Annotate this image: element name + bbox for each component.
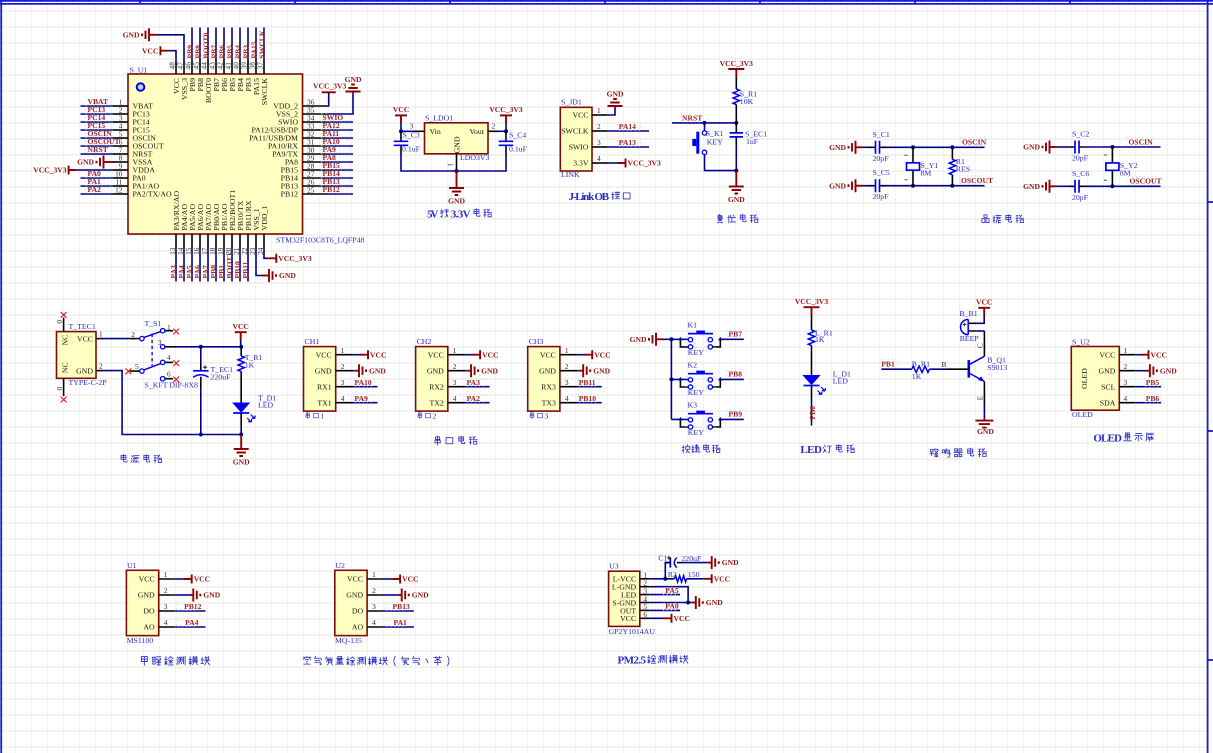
svg-text:C: C xyxy=(976,343,985,348)
svg-text:STM32F103C8T6_LQFP48: STM32F103C8T6_LQFP48 xyxy=(276,236,364,245)
wire U2 pin2 to ground xyxy=(384,594,398,596)
mcu pin 32 PA11/USB/DM xyxy=(303,137,328,139)
svg-text:6: 6 xyxy=(167,369,171,378)
svg-text:GND: GND xyxy=(481,366,498,375)
wire net PA7 from mcu pin 17 xyxy=(207,249,209,282)
net label OSCOUT xyxy=(86,137,112,145)
mcu pin 26 PB13 xyxy=(303,185,328,187)
ground at mcu pin 35 xyxy=(346,85,361,92)
mcu pin 38 PA15 xyxy=(255,60,257,74)
capacitor S_C2 20pF xyxy=(1069,146,1086,148)
wire net PB7 from mcu pin 43 xyxy=(215,28,217,61)
label serial port 2 xyxy=(418,412,422,419)
svg-text:1: 1 xyxy=(565,346,569,355)
mcu pin 21 PB10/TX xyxy=(239,234,241,249)
svg-text:2: 2 xyxy=(131,330,135,339)
net label PB11 xyxy=(578,379,599,386)
connector S_U2 OLED body xyxy=(1071,347,1119,411)
svg-text:PM2.5: PM2.5 xyxy=(618,654,647,666)
wire U3 pin2 L-GND xyxy=(650,587,688,603)
mcu pin 18 PB0/AO xyxy=(215,234,217,249)
svg-text:VCC_3V3: VCC_3V3 xyxy=(313,82,347,91)
title crystal circuit xyxy=(982,215,989,223)
power port VCC U2 xyxy=(392,575,400,584)
svg-text:VCC_3V3: VCC_3V3 xyxy=(795,297,829,306)
svg-text:VCC: VCC xyxy=(142,46,158,55)
title serial circuit xyxy=(435,436,440,445)
svg-text:SDA: SDA xyxy=(1100,398,1116,407)
mcu pin 5 OSCIN xyxy=(113,137,128,139)
svg-text:K2: K2 xyxy=(688,361,698,370)
svg-text:OSCOUT: OSCOUT xyxy=(1130,177,1162,186)
svg-text:PB12: PB12 xyxy=(281,190,298,199)
mcu pin 12 PA2/TX/AO xyxy=(113,193,128,195)
svg-text:2: 2 xyxy=(492,121,496,130)
svg-text:OLED: OLED xyxy=(1080,368,1089,389)
CH1 pin 4 TX1 xyxy=(336,402,353,404)
typec pin 1 VCC xyxy=(96,338,103,340)
wire oled pin1 to VCC xyxy=(1135,354,1140,356)
net label PB15 xyxy=(322,161,350,169)
svg-text:NC: NC xyxy=(61,362,70,373)
svg-text:S_C3: S_C3 xyxy=(403,131,420,140)
connector CH2 body xyxy=(416,347,448,412)
wire net PB13 U2 pin3 xyxy=(384,610,414,612)
net label PB10 xyxy=(578,395,599,402)
U3 pin 5 OUT xyxy=(640,609,650,611)
wire net PB6 oled pin4 xyxy=(1135,402,1161,404)
svg-text:S_C5: S_C5 xyxy=(873,168,890,177)
svg-text:3: 3 xyxy=(565,378,569,387)
wire K2 to net PB8 xyxy=(720,378,744,380)
push button K3 KEY xyxy=(680,419,688,427)
svg-text:VCC: VCC xyxy=(594,350,610,359)
wire mcu pin9 VDDA to VCC_3V3 xyxy=(77,169,113,171)
wire CH3 pin2 to ground xyxy=(577,370,579,372)
U2 pin 3 DO xyxy=(367,610,384,612)
svg-text:PB1: PB1 xyxy=(881,360,895,369)
wire U3 pin1 to node xyxy=(650,578,666,580)
svg-text:2: 2 xyxy=(372,586,376,595)
wire R2 to VCC xyxy=(687,578,704,580)
CH3 pin 4 TX3 xyxy=(560,402,577,404)
node junction bus K2 xyxy=(669,377,673,381)
wire ground to S_C2 xyxy=(1050,146,1057,148)
title power circuit xyxy=(121,454,127,462)
svg-text:LED: LED xyxy=(800,444,822,456)
svg-text:GP2Y1014AU: GP2Y1014AU xyxy=(609,627,656,636)
net label PA12 xyxy=(322,121,350,129)
mcu pin 47 VSS_3 xyxy=(183,60,185,74)
ground at mcu pin 47 xyxy=(142,28,149,41)
svg-text:PA13: PA13 xyxy=(619,138,636,147)
svg-text:VCC_3V3: VCC_3V3 xyxy=(33,166,67,175)
svg-text:DO: DO xyxy=(143,607,155,616)
svg-text:SCL: SCL xyxy=(1101,382,1116,391)
net label PA1 xyxy=(385,619,406,626)
svg-text:S_U1: S_U1 xyxy=(130,66,148,75)
node junction ground reset xyxy=(734,169,738,173)
mcu pin 10 PA0 xyxy=(113,177,128,179)
CH1 pin 3 RX1 xyxy=(336,386,353,388)
wire net PA3 from mcu pin 13 xyxy=(175,249,177,282)
mcu pin-1 indicator circle xyxy=(137,83,145,91)
net label PB1 xyxy=(880,360,898,368)
svg-text:GND: GND xyxy=(1023,143,1040,152)
node junction NRST/R1/EC1 xyxy=(734,121,738,125)
power port VCC_3V3 at LDO output xyxy=(500,114,512,116)
svg-text:0: 0 xyxy=(55,387,64,391)
svg-text:K1: K1 xyxy=(688,320,698,329)
net label PA9 xyxy=(354,395,375,402)
svg-text:GND: GND xyxy=(539,366,556,375)
svg-text:GND: GND xyxy=(829,143,846,152)
jlink pin 2 SWCLK xyxy=(592,130,607,132)
mcu pin 28 PB15 xyxy=(303,169,328,171)
wire net PA5 from mcu pin 15 xyxy=(191,249,193,282)
node junction R1 bottom xyxy=(950,184,954,188)
svg-text:2: 2 xyxy=(164,586,168,595)
mcu U1 body STM32F103C8T6 xyxy=(128,74,303,234)
svg-text:RES: RES xyxy=(956,165,970,174)
ground of LDO circuit xyxy=(456,171,458,188)
svg-text:1: 1 xyxy=(453,346,457,355)
svg-text:VCC: VCC xyxy=(572,111,588,120)
svg-text:NC: NC xyxy=(61,335,70,346)
svg-text:2: 2 xyxy=(1124,362,1128,371)
ground buzzer circuit xyxy=(983,419,985,421)
svg-text:3: 3 xyxy=(545,412,549,421)
net label PB7 xyxy=(727,329,746,337)
svg-text:KEY: KEY xyxy=(688,388,704,397)
svg-text:4: 4 xyxy=(341,394,345,403)
net label PA4 xyxy=(177,619,198,626)
svg-text:VCC: VCC xyxy=(620,614,636,623)
wire bus to K3 xyxy=(671,418,688,420)
capacitor C1 220uF electrolytic xyxy=(665,562,670,564)
svg-text:3.3V: 3.3V xyxy=(573,159,589,168)
wire net PC15 to mcu pin 4 xyxy=(81,129,114,131)
net label PA9 xyxy=(322,145,350,153)
wire net PA2 to mcu pin 12 xyxy=(81,193,114,195)
transistor B_Q1 S9013 xyxy=(967,360,970,378)
svg-text:KEY: KEY xyxy=(688,348,704,357)
mcu pin 20 PB2/BOOT1 xyxy=(231,234,233,249)
net label PA0 xyxy=(86,169,112,177)
svg-text:J-Link OB: J-Link OB xyxy=(569,191,610,203)
mcu pin 46 PB9 xyxy=(191,60,193,74)
power port VCC oled xyxy=(1141,350,1149,359)
ground U3 xyxy=(696,596,703,609)
wire net BOOT1 from mcu pin 20 xyxy=(231,249,233,282)
svg-text:GND: GND xyxy=(346,591,363,600)
wire net PB11 from mcu pin 22 xyxy=(247,249,249,282)
wire net PB0 from mcu pin 18 xyxy=(215,249,217,282)
mcu pin 8 VSSA xyxy=(113,161,128,163)
power port VCC power circuit xyxy=(235,331,247,333)
label serial port 1 xyxy=(306,412,310,419)
mcu pin 19 PB1/AO xyxy=(223,234,225,249)
power port VCC U3 pin6 xyxy=(664,614,672,623)
led L_D1 xyxy=(804,376,820,385)
svg-text:4: 4 xyxy=(565,394,569,403)
ldo pin 3 Vin xyxy=(414,130,425,132)
svg-text:150: 150 xyxy=(688,570,700,579)
svg-text:PB13: PB13 xyxy=(393,602,411,611)
svg-text:3: 3 xyxy=(164,602,168,611)
svg-text:U3: U3 xyxy=(609,562,619,571)
ground at mcu pin 8 VSSA xyxy=(97,156,104,169)
net label PA2 xyxy=(466,395,487,402)
wire emitter to ground xyxy=(983,382,985,405)
CH3 pin 2 GND xyxy=(560,370,577,372)
wire net PB9 from mcu pin 46 xyxy=(191,28,193,61)
svg-text:3: 3 xyxy=(158,338,162,347)
svg-text:0.1uF: 0.1uF xyxy=(509,145,528,154)
svg-text:SWCLK: SWCLK xyxy=(260,78,269,106)
typec pin 0 bottom with no-ERC cross xyxy=(63,378,65,396)
wire C4 to ground rail xyxy=(457,155,507,172)
net label PC13 xyxy=(86,105,112,113)
svg-text:RX1: RX1 xyxy=(317,382,332,391)
wire net NRST to mcu pin 7 xyxy=(81,153,114,155)
connector CH3 body xyxy=(528,347,560,412)
node junction ground rail xyxy=(455,169,459,173)
wire net OSCIN to mcu pin 5 xyxy=(81,137,114,139)
svg-text:20pF: 20pF xyxy=(1072,154,1089,163)
mcu pin 3 PC14 xyxy=(113,121,128,123)
svg-text:S_U2: S_U2 xyxy=(1072,338,1090,347)
svg-text:1: 1 xyxy=(446,163,455,167)
ground power circuit xyxy=(240,435,242,450)
svg-text:1: 1 xyxy=(372,570,376,579)
svg-text:4: 4 xyxy=(167,353,171,362)
wire net PA10 from mcu pin 31 xyxy=(327,145,353,147)
svg-text:SWCLK: SWCLK xyxy=(258,30,267,58)
wire net PA10 CH1 pin3 xyxy=(353,386,377,388)
wire net PB5 from mcu pin 41 xyxy=(231,28,233,61)
net label PB9 xyxy=(727,409,746,417)
svg-text:GND: GND xyxy=(203,591,220,600)
net label PB8 xyxy=(727,369,746,377)
wire net PB11 CH3 pin3 xyxy=(577,386,601,388)
svg-text:LDO3V3: LDO3V3 xyxy=(460,153,490,162)
wire net PB4 from mcu pin 40 xyxy=(239,28,241,61)
power port VCC at mcu pin 48 xyxy=(160,46,168,55)
svg-text:4: 4 xyxy=(164,618,168,627)
mcu pin 23 VSS_1 xyxy=(255,234,257,249)
ground left of capacitor S_C6 xyxy=(1043,180,1050,193)
wire oled pin2 to ground xyxy=(1135,370,1146,372)
label serial port 3 xyxy=(530,412,534,419)
svg-text:GND: GND xyxy=(315,366,332,375)
push button K2 KEY xyxy=(680,379,688,387)
crystal S_Y2 8M xyxy=(1111,147,1113,186)
mcu pin 35 VSS_2 xyxy=(303,113,328,115)
wire ground to S_C1 xyxy=(856,146,863,148)
CH2 pin 3 RX2 xyxy=(448,386,465,388)
svg-text:1: 1 xyxy=(99,330,103,339)
svg-text:2: 2 xyxy=(565,362,569,371)
svg-text:S_C1: S_C1 xyxy=(873,130,890,139)
wire ground to S_C5 xyxy=(856,185,863,187)
wire bus to K2 xyxy=(671,378,688,380)
svg-text:VCC: VCC xyxy=(77,334,93,343)
mcu pin 13 PA3/RX/AO xyxy=(175,234,177,249)
svg-text:B: B xyxy=(942,360,947,369)
svg-text:OLED: OLED xyxy=(1072,410,1093,419)
wire mcu pin35 VSS_2 to ground xyxy=(327,92,353,114)
svg-text:GND: GND xyxy=(1160,366,1177,375)
net label PB14 xyxy=(322,169,350,177)
ldo U LDO1 body xyxy=(425,123,489,154)
mcu pin 15 PA5/AO xyxy=(191,234,193,249)
resistor L_R1 1K xyxy=(808,330,814,346)
wire net PB1 from mcu pin 19 xyxy=(223,249,225,282)
svg-text:5: 5 xyxy=(135,362,139,371)
svg-text:PA3: PA3 xyxy=(467,378,481,387)
svg-text:S_JD1: S_JD1 xyxy=(561,98,582,107)
svg-text:10K: 10K xyxy=(740,97,754,106)
net label PA3 xyxy=(466,379,487,386)
capacitor S_C6 20pF xyxy=(1069,185,1086,187)
wire net PB3 from mcu pin 39 xyxy=(247,28,249,61)
mcu pin 40 PB4 xyxy=(239,60,241,74)
wire net PA1 to mcu pin 11 xyxy=(81,185,114,187)
svg-text:VCC_3V3: VCC_3V3 xyxy=(720,59,754,68)
mcu pin 7 NRST xyxy=(113,153,128,155)
power port VCC_3V3 at jlink 3.3V pin xyxy=(618,159,626,168)
wire net PA0 to mcu pin 10 xyxy=(81,177,114,179)
svg-text:2: 2 xyxy=(597,122,601,131)
net label OSCIN crystal1 xyxy=(961,138,987,146)
wire net BOOT0 from mcu pin 44 xyxy=(207,28,209,61)
wire net PA6 from mcu pin 16 xyxy=(199,249,201,282)
svg-text:3.3V: 3.3V xyxy=(451,209,471,221)
wire net PB12 from mcu pin 25 xyxy=(327,193,353,195)
svg-text:PA0: PA0 xyxy=(665,602,679,611)
power port VCC CH1 xyxy=(360,350,368,359)
ground left of capacitor S_C5 xyxy=(849,179,856,192)
svg-text:E: E xyxy=(976,395,985,400)
svg-text:0.1uF: 0.1uF xyxy=(402,145,421,154)
push button S_K1 KEY xyxy=(704,123,706,131)
CH3 pin 3 RX3 xyxy=(560,386,577,388)
svg-text:VCC: VCC xyxy=(194,575,210,584)
power port VCC_3V3 reset xyxy=(728,68,744,70)
mcu pin 2 PC13 xyxy=(113,113,128,115)
svg-text:GND: GND xyxy=(369,366,386,375)
svg-text:1: 1 xyxy=(320,412,324,421)
svg-text:GND: GND xyxy=(279,271,296,280)
svg-text:VCC: VCC xyxy=(232,322,248,331)
svg-text:PB8: PB8 xyxy=(729,370,743,379)
svg-text:VCC: VCC xyxy=(482,350,498,359)
net label PB6 xyxy=(1144,395,1161,402)
wire net PC14 to mcu pin 3 xyxy=(81,121,114,123)
svg-text:S9013: S9013 xyxy=(987,363,1007,372)
wire VCC to buzzer plus pin xyxy=(976,316,984,324)
svg-text:4: 4 xyxy=(597,154,601,163)
wire jlink pin4 to VCC_3V3 xyxy=(607,162,618,164)
svg-text:PB5: PB5 xyxy=(1146,378,1160,387)
mcu pin 31 PA10/RX xyxy=(303,145,328,147)
wire key to ground rail xyxy=(705,155,737,171)
svg-text:GND: GND xyxy=(427,366,444,375)
wire net NRST xyxy=(672,122,736,124)
svg-text:TX3: TX3 xyxy=(542,398,556,407)
U1 pin 3 DO xyxy=(159,610,176,612)
svg-text:GND: GND xyxy=(630,335,647,344)
wire net PA9 CH1 pin4 xyxy=(353,402,377,404)
wire net PA4 U1 pin4 xyxy=(175,626,205,628)
wire net PB5 oled pin3 xyxy=(1135,386,1161,388)
wire EC1 to bottom rail xyxy=(200,388,202,434)
svg-text:SWIO: SWIO xyxy=(569,143,589,152)
wire U3 pin6 to VCC xyxy=(650,617,664,619)
node junction bottom rail led xyxy=(239,433,243,437)
svg-text:BEEP: BEEP xyxy=(960,334,980,343)
wire U1 pin2 to ground xyxy=(175,594,189,596)
connector CH1 body xyxy=(304,347,336,412)
wire LED to bottom rail xyxy=(240,413,242,425)
svg-text:B_R1: B_R1 xyxy=(912,359,930,368)
U1 pin 4 AO xyxy=(159,626,176,628)
mcu pin 42 PB6 xyxy=(223,60,225,74)
svg-text:VCC: VCC xyxy=(428,350,444,359)
power port VCC_3V3 at mcu pin 9 xyxy=(69,166,77,175)
mcu pin 9 VDDA xyxy=(113,169,128,171)
svg-text:220uF: 220uF xyxy=(211,373,232,382)
wire key bus vertical xyxy=(670,339,672,419)
wire CH2 pin2 to ground xyxy=(465,370,467,372)
net label PA10 xyxy=(322,137,350,145)
ldo pin 2 Vout xyxy=(488,130,498,132)
svg-text:25: 25 xyxy=(307,185,315,194)
node junction crystal bottom xyxy=(1110,184,1114,188)
net label PA13 xyxy=(618,139,641,147)
svg-text:20pF: 20pF xyxy=(1072,193,1089,202)
wire mcu pin23 VSS_1 to ground xyxy=(256,249,262,276)
net label PC15 xyxy=(86,121,112,129)
svg-text:VCC: VCC xyxy=(674,614,690,623)
svg-text:OSCIN: OSCIN xyxy=(962,138,987,147)
svg-text:1K: 1K xyxy=(245,360,255,369)
svg-text:R2: R2 xyxy=(668,570,677,579)
wire net PA3 CH2 pin3 xyxy=(465,386,489,388)
typec pin 0 top with no-ERC cross xyxy=(63,318,65,332)
svg-text:KEY: KEY xyxy=(707,137,723,146)
wire VCC_3V3 to resistor S_R1 xyxy=(735,77,737,89)
title key circuit xyxy=(682,445,690,453)
svg-text:PB7: PB7 xyxy=(729,330,743,339)
svg-text:VCC: VCC xyxy=(714,574,730,583)
svg-text:MS1100: MS1100 xyxy=(127,636,154,645)
capacitor S_C5 20pF xyxy=(869,185,886,187)
wire CH1 pin2 to ground xyxy=(353,370,355,372)
power port VCC_3V3 at mcu pin 36 xyxy=(322,91,336,93)
svg-text:AO: AO xyxy=(143,623,155,632)
svg-text:AO: AO xyxy=(352,623,364,632)
wire EC1 to ground xyxy=(735,146,737,171)
wire net PB6 from mcu pin 42 xyxy=(223,28,225,61)
wire bus to K1 xyxy=(671,338,688,340)
svg-text:PA5: PA5 xyxy=(665,586,679,595)
mcu pin 6 OSCOUT xyxy=(113,145,128,147)
wire net PB12 U1 pin3 xyxy=(175,610,205,612)
mcu pin 43 PB7 xyxy=(215,60,217,74)
node junction R1 top xyxy=(950,145,954,149)
